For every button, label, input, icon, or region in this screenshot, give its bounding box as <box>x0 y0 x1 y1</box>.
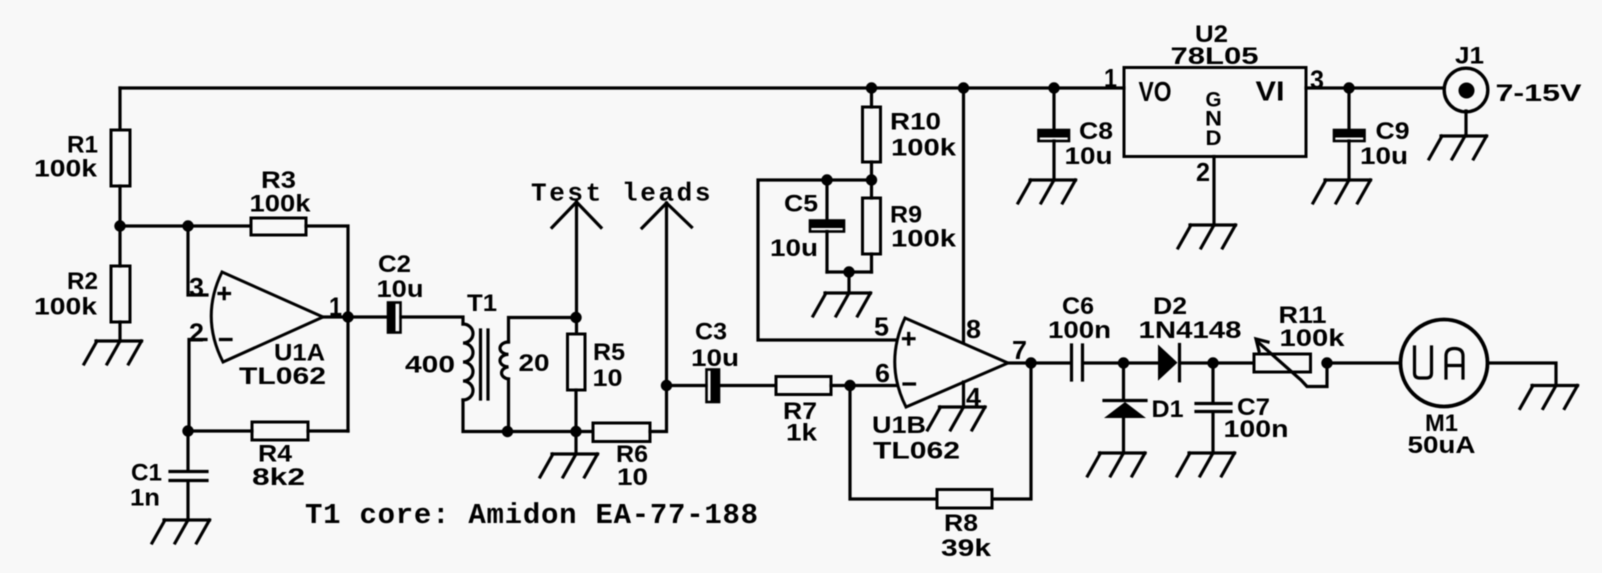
svg-text:10u: 10u <box>770 235 818 262</box>
ground below J1 <box>1429 136 1487 159</box>
svg-text:78L05: 78L05 <box>1171 43 1259 70</box>
junction pin7 <box>1025 357 1036 368</box>
junction C7 node <box>1207 357 1218 368</box>
wire left drop to R1 <box>118 88 121 130</box>
svg-text:R2: R2 <box>67 268 98 295</box>
svg-text:R8: R8 <box>944 510 978 537</box>
junction R4/C1 <box>182 425 193 436</box>
junction bottom rail <box>570 426 581 437</box>
svg-text:C6: C6 <box>1062 293 1094 320</box>
wire R2 leads <box>118 226 121 341</box>
wire T1 secondary top <box>509 318 577 343</box>
wire C7 stems <box>1211 363 1214 453</box>
connector J1 <box>1444 43 1581 112</box>
svg-text:100n: 100n <box>1224 416 1289 443</box>
wire C9 stems <box>1347 88 1350 180</box>
svg-text:400: 400 <box>405 352 455 379</box>
svg-text:8: 8 <box>966 314 981 344</box>
svg-text:3: 3 <box>189 272 204 302</box>
wire node row to R3 <box>119 224 251 227</box>
wire ground stem <box>574 432 577 455</box>
svg-text:10u: 10u <box>377 276 424 303</box>
resistor R2 <box>34 266 130 322</box>
svg-text:100k: 100k <box>891 226 957 253</box>
resistor R10 <box>863 107 957 162</box>
svg-text:Test leads: Test leads <box>531 179 713 209</box>
meter M1 <box>1401 320 1488 460</box>
svg-text:C8: C8 <box>1079 118 1113 145</box>
svg-text:10u: 10u <box>1360 143 1408 170</box>
junction D1 node <box>1118 357 1129 368</box>
svg-text:1k: 1k <box>786 420 818 447</box>
svg-text:C2: C2 <box>378 251 411 278</box>
junction R5 top <box>570 312 581 323</box>
svg-text:6: 6 <box>875 358 890 388</box>
svg-text:3: 3 <box>1310 65 1324 95</box>
op-amp U1B <box>872 312 1027 465</box>
svg-text:2: 2 <box>189 318 204 348</box>
svg-text:39k: 39k <box>941 535 992 562</box>
diode D1 <box>1104 363 1184 453</box>
wire pin2 <box>189 340 206 432</box>
transformer T1 secondary <box>500 342 509 379</box>
test lead arrow 2 <box>642 203 692 386</box>
junction R10/R9 <box>866 174 877 185</box>
junction T1 secondary bottom <box>502 426 513 437</box>
junction R10 top rail <box>866 82 877 93</box>
svg-text:R5: R5 <box>593 339 625 366</box>
svg-text:100k: 100k <box>34 294 98 321</box>
svg-text:D1: D1 <box>1152 396 1184 423</box>
svg-text:100k: 100k <box>891 135 957 162</box>
junction C5/R9 bottom <box>843 266 854 277</box>
wire C2 to T1 <box>401 317 463 324</box>
wire U1B output <box>1008 361 1071 364</box>
wire R1 bottom lead <box>118 186 121 226</box>
svg-text:D: D <box>1206 127 1222 150</box>
wire R7 to pin6 <box>831 384 899 387</box>
wire T1 primary bottom rail <box>463 400 593 432</box>
ground below D1 <box>1088 453 1146 476</box>
capacitor C6 <box>1048 293 1111 380</box>
junction R11 wiper <box>1321 357 1332 368</box>
capacitor C5 <box>770 191 845 263</box>
svg-text:100k: 100k <box>1280 325 1346 352</box>
wire U1A output <box>323 315 387 318</box>
wire C8 stems <box>1052 88 1055 180</box>
svg-text:50uA: 50uA <box>1408 432 1476 459</box>
transformer T1 primary <box>463 324 473 400</box>
svg-text:R9: R9 <box>890 202 922 229</box>
wire meter to ground <box>1489 363 1556 386</box>
wire to C3 <box>667 384 707 387</box>
regulator U2 <box>1104 21 1324 187</box>
svg-text:C3: C3 <box>695 319 727 346</box>
capacitor C7 <box>1196 394 1289 443</box>
ground below C5 <box>813 293 871 316</box>
wire pin3 branch <box>188 226 207 295</box>
capacitor C9 <box>1334 118 1410 170</box>
svg-text:VI: VI <box>1256 76 1285 107</box>
junction C9 rail <box>1343 82 1354 93</box>
svg-text:20: 20 <box>519 350 550 377</box>
svg-text:C5: C5 <box>784 191 818 218</box>
svg-text:100k: 100k <box>34 156 98 183</box>
wire R10 leads <box>870 88 873 180</box>
svg-text:U1B: U1B <box>872 412 926 439</box>
wire R5 bottom lead <box>574 390 577 432</box>
junction R1/R2/R3 <box>114 220 125 231</box>
wire C1 leads <box>186 431 189 520</box>
resistor R4 <box>252 422 308 491</box>
svg-text:7: 7 <box>1012 335 1027 365</box>
capacitor C2 <box>377 251 424 334</box>
resistor R5 <box>568 334 626 392</box>
svg-text:5: 5 <box>874 312 889 342</box>
resistor R6 <box>593 423 650 491</box>
wire C5/R9 bottom row <box>827 272 872 293</box>
junction C3 node <box>661 380 672 391</box>
svg-text:7-15V: 7-15V <box>1496 80 1582 107</box>
ground below R5 <box>540 454 598 477</box>
svg-text:VO: VO <box>1139 76 1172 107</box>
wire pin4 <box>962 382 965 407</box>
wire R4 leads <box>188 429 348 432</box>
ground below C8 <box>1018 180 1076 203</box>
junction C5 top <box>821 174 832 185</box>
resistor R3 <box>250 167 312 235</box>
svg-text:8k2: 8k2 <box>252 464 305 491</box>
wire C5 stems <box>825 180 828 272</box>
svg-text:T1: T1 <box>467 290 497 317</box>
svg-text:J1: J1 <box>1455 43 1484 70</box>
transformer T1 core <box>481 330 489 399</box>
junction pin6 node <box>844 380 855 391</box>
op-amp U1A <box>189 272 342 390</box>
ground below U2 <box>1178 225 1236 248</box>
svg-text:C9: C9 <box>1376 118 1410 145</box>
resistor R8 <box>937 490 992 563</box>
wire C6 to D2 <box>1083 361 1158 364</box>
wire feedback loop <box>850 363 1031 499</box>
svg-text:1N4148: 1N4148 <box>1139 317 1242 344</box>
wire D2 to R11 <box>1181 361 1254 364</box>
junction C8 rail <box>1048 82 1059 93</box>
wire U2 pin3 to J1 <box>1306 86 1444 89</box>
svg-text:TL062: TL062 <box>239 363 326 390</box>
wire R9 leads <box>870 180 873 272</box>
svg-text:1n: 1n <box>130 485 160 512</box>
svg-text:TL062: TL062 <box>873 438 960 465</box>
wire R11 to meter <box>1327 361 1399 364</box>
ground right of meter <box>1520 386 1578 409</box>
svg-text:10u: 10u <box>1065 143 1113 170</box>
svg-text:C1: C1 <box>131 460 162 487</box>
ground below C9 <box>1313 180 1371 203</box>
capacitor C1 <box>130 460 207 512</box>
svg-text:10: 10 <box>617 464 648 491</box>
svg-text:R10: R10 <box>890 109 941 136</box>
trimmer R11 <box>1254 302 1345 387</box>
wire U2 pin2 <box>1212 157 1215 226</box>
resistor R9 <box>863 198 957 254</box>
wire T1 secondary bottom <box>507 379 510 432</box>
resistor R1 <box>34 130 130 186</box>
wire R6 right lead <box>650 386 667 432</box>
diode D2 <box>1139 293 1242 381</box>
resistor R7 <box>776 377 831 447</box>
junction U1A output <box>342 311 353 322</box>
wire pin5 loop <box>758 180 897 340</box>
capacitor C3 <box>691 319 739 403</box>
wire supply pin8 <box>962 88 965 343</box>
svg-text:R1: R1 <box>67 132 98 159</box>
svg-text:10u: 10u <box>691 345 739 372</box>
ground below C1 <box>152 520 210 543</box>
svg-text:T1 core: Amidon EA-77-188: T1 core: Amidon EA-77-188 <box>305 499 759 532</box>
wire J1 to ground <box>1464 111 1467 136</box>
wire C3 to R7 <box>720 384 776 387</box>
wire top supply rail <box>120 86 1124 89</box>
label T1 <box>405 290 550 379</box>
svg-text:1: 1 <box>1104 63 1117 93</box>
wire R3 right lead and feedback vertical <box>306 226 348 431</box>
capacitor C8 <box>1038 118 1113 170</box>
svg-text:D2: D2 <box>1153 293 1187 320</box>
junction pin3 branch <box>182 220 193 231</box>
ground below pin4 <box>928 407 986 430</box>
svg-text:2: 2 <box>1196 157 1210 187</box>
svg-text:10: 10 <box>593 365 623 392</box>
ground below C7 <box>1177 453 1235 476</box>
test lead arrow 1 <box>552 202 601 334</box>
junction pin8 rail <box>958 82 969 93</box>
ground below R2 <box>84 341 142 364</box>
svg-text:100k: 100k <box>250 191 312 218</box>
svg-text:100n: 100n <box>1048 317 1111 344</box>
